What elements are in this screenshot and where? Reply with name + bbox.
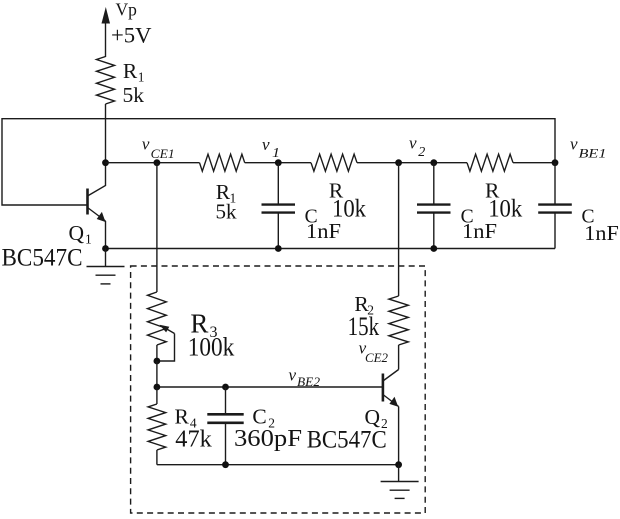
wire v2 down to R2 (crosses rail and dashed box) (398, 163, 400, 296)
value label R2 (354, 292, 374, 317)
junction collector node (102, 159, 109, 166)
svg-text:Q: Q (69, 221, 85, 245)
junction R4 top (154, 384, 161, 391)
value label C2 (252, 405, 275, 431)
svg-text:CE1: CE1 (151, 147, 175, 161)
value label C 1nF (vBE1) (582, 207, 619, 245)
transistor Q2 (383, 370, 399, 407)
node vCE2 label (359, 339, 388, 365)
svg-text:BC547C: BC547C (307, 426, 387, 453)
svg-text:5k: 5k (123, 83, 145, 107)
svg-text:C: C (252, 405, 266, 429)
node v2 (395, 133, 425, 166)
svg-text:1: 1 (85, 232, 92, 247)
dashed subcircuit box (131, 266, 426, 513)
capacitor C at v2 (417, 163, 451, 249)
node vBE2 label (289, 365, 321, 389)
junction R3 bottom / wiper (154, 358, 161, 365)
label Q1 (69, 221, 92, 247)
svg-text:1: 1 (272, 146, 280, 161)
value label R4 (175, 405, 197, 431)
svg-text:BE1: BE1 (579, 146, 607, 161)
wire R1h to v1 to R10k#1 (245, 162, 311, 164)
svg-text:v: v (142, 135, 150, 154)
capacitor C2 (207, 387, 243, 465)
svg-text:1nF: 1nF (462, 219, 497, 243)
junction Q2 emitter (395, 461, 402, 468)
potentiometer R3 (148, 292, 175, 361)
emitter wire Q2 (398, 407, 400, 465)
ground (Q2 emitter) (381, 465, 419, 499)
subcircuit bottom rail (157, 464, 399, 466)
svg-text:CE2: CE2 (365, 351, 388, 365)
svg-text:BC547C: BC547C (2, 245, 83, 272)
svg-text:5k: 5k (216, 199, 237, 223)
svg-text:v: v (570, 135, 578, 154)
junction cap node at v2 (430, 159, 437, 166)
bottom rail (106, 248, 556, 250)
ground (Q1 emitter) (87, 249, 125, 284)
node vCE1 (142, 135, 175, 166)
value label C 1nF (v1) (305, 207, 341, 244)
value label R 10k #1 (329, 179, 366, 223)
wire R10k#2 to vBE1 (513, 162, 555, 164)
svg-text:BE2: BE2 (297, 375, 320, 389)
svg-text:+5V: +5V (111, 22, 152, 47)
junction cap1 / rail (275, 245, 282, 252)
resistor R 10k #2 (467, 154, 513, 171)
net vBE2 rail (157, 386, 383, 388)
value label R1 (123, 59, 145, 85)
emitter wire Q1 (105, 221, 107, 249)
svg-text:v: v (409, 133, 417, 152)
value label R 10k #2 (485, 179, 522, 223)
svg-text:100k: 100k (188, 332, 235, 362)
svg-text:1nF: 1nF (306, 219, 341, 243)
power Vp arrow (102, 7, 111, 57)
junction C2 bottom (222, 461, 229, 468)
node vBE1 (552, 135, 607, 167)
resistor R4 (148, 387, 166, 465)
value label C 1nF (v2) (461, 207, 497, 244)
svg-text:Vp: Vp (116, 0, 138, 20)
capacitor C at vBE1 (538, 163, 572, 249)
value label R1 (horizontal) (216, 180, 236, 206)
svg-text:R: R (175, 405, 190, 429)
wire R1 to collector node (crosses feedback rail) (105, 104, 107, 163)
wire R10k#1 to v2 to R10k#2 (357, 162, 467, 164)
svg-text:2: 2 (418, 145, 425, 160)
junction cap2 / rail (430, 245, 437, 252)
wire R3 to vBE2 rail (156, 361, 158, 387)
svg-text:R: R (123, 59, 138, 83)
wire feedback rail vBE1 to Q1 base (2, 119, 555, 205)
node v1 (262, 135, 282, 166)
resistor R1 (vertical 5k) (97, 57, 115, 105)
svg-text:1nF: 1nF (584, 221, 619, 245)
capacitor C at v1 (262, 163, 296, 249)
junction emitter / rail (102, 245, 109, 252)
transistor Q1 (88, 163, 106, 222)
resistor R1 (horizontal 5k) (200, 154, 245, 171)
svg-text:v: v (289, 365, 297, 384)
resistor R2 (389, 296, 408, 370)
svg-text:47k: 47k (175, 427, 212, 453)
svg-text:v: v (262, 135, 270, 154)
svg-text:360pF: 360pF (234, 426, 302, 452)
svg-text:10k: 10k (332, 193, 366, 222)
svg-text:10k: 10k (488, 193, 522, 222)
value label R3 (190, 308, 217, 341)
svg-text:15k: 15k (348, 311, 380, 341)
wire vCE1 down to R3 (crosses rail and dashed box) (156, 163, 158, 292)
label Q2 (365, 405, 388, 431)
junction C2 top (222, 384, 229, 391)
wire collector to vCE1 to R1h (106, 162, 200, 164)
resistor R 10k #1 (311, 154, 357, 171)
